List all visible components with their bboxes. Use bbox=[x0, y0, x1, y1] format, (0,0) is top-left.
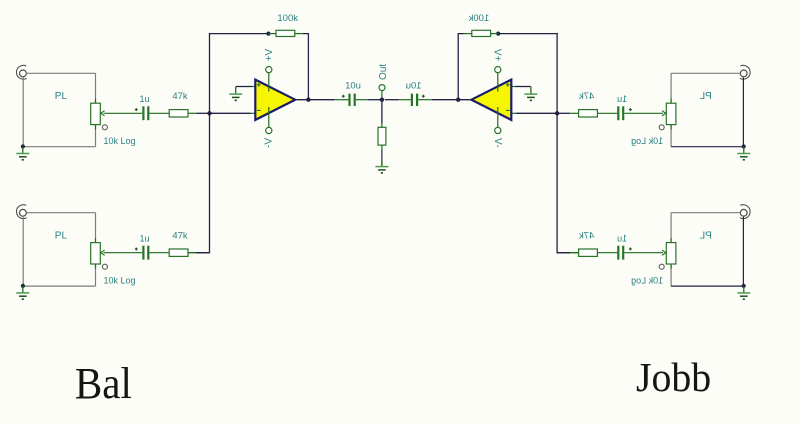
output node junction dot bbox=[380, 98, 384, 102]
PL box jack-side edges 3 bbox=[742, 77, 744, 146]
PL box outline (symbol body) 3 bbox=[671, 72, 740, 74]
wire non-inverting input to ground U1 bbox=[236, 86, 252, 88]
svg-text:10u: 10u bbox=[345, 80, 361, 91]
plus polarity mark C4 bbox=[629, 248, 632, 250]
plus input pin mark U1 bbox=[257, 84, 261, 86]
right half: Jobb channel amplifier (mirrored) bbox=[385, 13, 751, 299]
svg-text:Jobb: Jobb bbox=[636, 354, 711, 400]
svg-text:47k: 47k bbox=[579, 230, 595, 241]
wire 10u to output node U2 bbox=[385, 99, 399, 101]
svg-text:+V: +V bbox=[264, 48, 275, 61]
resistor R2 47k bbox=[169, 249, 188, 256]
wire channel2 to bus U2 bbox=[557, 252, 570, 254]
positive supply terminal +V U1 bbox=[268, 73, 270, 92]
svg-text:100k: 100k bbox=[468, 13, 489, 24]
svg-text:10k Log: 10k Log bbox=[631, 136, 663, 146]
pot bottom terminal circle 1 bbox=[102, 125, 107, 130]
negative supply terminal -V U2 bbox=[497, 107, 499, 128]
positive supply terminal +V U2 bbox=[497, 73, 499, 92]
capacitor C3 1u (polarized) bbox=[622, 106, 624, 120]
wire pot wiper to C2 bbox=[104, 252, 143, 254]
feedback wire right down to output U2 bbox=[458, 34, 464, 100]
svg-text:10k Log: 10k Log bbox=[104, 136, 136, 146]
wire pot wiper to C1 bbox=[104, 112, 143, 114]
svg-text:10k Log: 10k Log bbox=[631, 276, 663, 286]
PL box jack-side edges 2 bbox=[22, 217, 24, 286]
capacitor C2 1u (polarized) bbox=[142, 246, 144, 260]
wire R3 to summing node 3 bbox=[570, 112, 579, 114]
ground at output load bbox=[381, 160, 383, 167]
connector jack J4 bbox=[740, 205, 750, 219]
svg-text:1u: 1u bbox=[617, 233, 627, 243]
wire C1 to R1 bbox=[149, 112, 169, 114]
svg-text:10k Log: 10k Log bbox=[104, 276, 136, 286]
svg-text:PL: PL bbox=[55, 91, 68, 102]
pot bottom terminal circle 4 bbox=[659, 264, 664, 269]
potentiometer P4 10k bbox=[670, 238, 672, 243]
wire pot wiper to C4 bbox=[624, 252, 663, 254]
connector jack J3 bbox=[740, 65, 750, 79]
ground at non-inverting input U2 bbox=[530, 87, 532, 94]
wire C2 to R2 bbox=[149, 252, 169, 254]
summing junction dot U2 input bbox=[555, 111, 559, 115]
minus input pin mark U1 bbox=[257, 109, 261, 111]
ground under PL box 4 bbox=[743, 286, 745, 293]
svg-text:47k: 47k bbox=[579, 91, 595, 102]
plus polarity mark C2 bbox=[135, 248, 138, 250]
left half: Bal channel amplifier bbox=[16, 13, 382, 299]
svg-text:+V: +V bbox=[491, 48, 502, 61]
svg-text:Bal: Bal bbox=[75, 359, 132, 408]
wire C3 to R3 bbox=[597, 112, 617, 114]
pot bottom terminal circle 3 bbox=[659, 125, 664, 130]
svg-text:PL: PL bbox=[699, 230, 712, 241]
resistor feedback 100k U2 bbox=[491, 33, 499, 35]
svg-text:-V: -V bbox=[492, 138, 503, 148]
svg-text:-V: -V bbox=[264, 138, 275, 148]
summing junction dot U1 input bbox=[207, 111, 211, 115]
wire non-inverting input to ground U2 bbox=[515, 86, 531, 88]
feedback wire right down to output U1 bbox=[303, 34, 309, 100]
junction dot feedback U2 bbox=[496, 31, 500, 35]
junction dot at box ground corner 1 bbox=[21, 144, 25, 148]
wire R1 to summing node 1 bbox=[188, 112, 197, 114]
wire node to load resistor bbox=[381, 100, 383, 124]
ground under PL box 2 bbox=[22, 286, 24, 293]
vertical bus wire joining both channels U2 bbox=[556, 33, 558, 254]
resistor feedback 100k U1 bbox=[268, 33, 276, 35]
svg-text:PL: PL bbox=[55, 230, 68, 241]
wire R2 to summing node 2 bbox=[188, 252, 197, 254]
feedback wire top U1 bbox=[209, 33, 268, 35]
plus polarity mark C3 bbox=[629, 109, 632, 111]
resistor R1 47k bbox=[169, 110, 188, 117]
ground at non-inverting input U1 bbox=[235, 87, 237, 94]
PL box jack-side edges 4 bbox=[742, 217, 744, 286]
svg-text:10u: 10u bbox=[406, 80, 422, 91]
potentiometer P2 10k bbox=[95, 238, 97, 243]
PL box jack-side edges 1 bbox=[22, 77, 24, 146]
output wire U2 bbox=[432, 99, 471, 101]
op-amp U1 triangle bbox=[255, 80, 295, 120]
minus input pin mark U2 bbox=[506, 109, 510, 111]
svg-text:100k: 100k bbox=[277, 13, 298, 24]
output wire U1 bbox=[295, 99, 334, 101]
potentiometer P3 10k bbox=[670, 99, 672, 104]
svg-text:1u: 1u bbox=[140, 94, 150, 104]
capacitor 10u output U1 (polarized) bbox=[335, 99, 349, 101]
svg-text:1u: 1u bbox=[617, 94, 627, 104]
resistor R3 47k bbox=[579, 110, 598, 117]
junction dot at box ground corner 4 bbox=[742, 284, 746, 288]
ground under PL box 3 bbox=[743, 147, 745, 154]
ground under PL box 1 bbox=[22, 147, 24, 154]
plus polarity mark 10u U1 bbox=[342, 95, 345, 97]
PL box outline (symbol body) 4 bbox=[671, 212, 740, 214]
svg-text:47k: 47k bbox=[172, 230, 188, 241]
PL box outline (symbol body) 1 bbox=[27, 72, 96, 74]
capacitor C4 1u (polarized) bbox=[622, 246, 624, 260]
junction dot output U2 bbox=[456, 98, 460, 102]
op-amp U2 triangle bbox=[471, 80, 511, 120]
junction dot at box ground corner 3 bbox=[742, 144, 746, 148]
wire C4 to R4 bbox=[597, 252, 617, 254]
wire 10u to output node U1 bbox=[368, 99, 382, 101]
Out terminal circle bbox=[381, 91, 383, 98]
load resistor R7 bbox=[378, 127, 386, 145]
junction dot feedback U1 bbox=[266, 31, 270, 35]
vertical bus wire joining both channels U1 bbox=[209, 33, 211, 254]
capacitor C1 1u (polarized) bbox=[142, 106, 144, 120]
connector jack J2 bbox=[16, 205, 26, 219]
plus polarity mark 10u U2 bbox=[422, 95, 425, 97]
wire bus to inverting input U2 bbox=[516, 112, 557, 114]
plus polarity mark C1 bbox=[135, 109, 138, 111]
wire load resistor to ground bbox=[381, 145, 383, 150]
resistor R4 47k bbox=[579, 249, 598, 256]
capacitor 10u output U2 (polarized) bbox=[418, 99, 432, 101]
svg-text:Out: Out bbox=[378, 64, 389, 80]
svg-text:47k: 47k bbox=[172, 91, 188, 102]
svg-text:1u: 1u bbox=[140, 233, 150, 243]
plus input pin mark U2 bbox=[506, 84, 510, 86]
pot bottom terminal circle 2 bbox=[102, 264, 107, 269]
potentiometer P1 10k bbox=[95, 99, 97, 104]
negative supply terminal -V U1 bbox=[268, 107, 270, 128]
junction dot at box ground corner 2 bbox=[21, 284, 25, 288]
wire R4 to summing node 4 bbox=[570, 252, 579, 254]
wire bus to inverting input U1 bbox=[210, 112, 251, 114]
wire channel2 to bus U1 bbox=[197, 252, 210, 254]
junction dot output U1 bbox=[306, 98, 310, 102]
svg-text:PL: PL bbox=[699, 91, 712, 102]
wire pot wiper to C3 bbox=[624, 112, 663, 114]
PL box outline (symbol body) 2 bbox=[27, 212, 96, 214]
connector jack J1 bbox=[16, 65, 26, 79]
feedback wire top U2 bbox=[499, 33, 558, 35]
